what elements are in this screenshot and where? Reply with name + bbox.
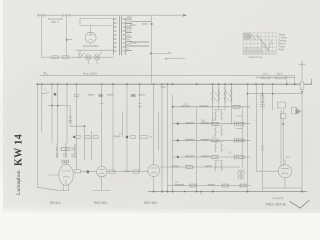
coil pair IF3 bbox=[214, 126, 223, 137]
wire: rectifier bottom bbox=[76, 43, 114, 55]
terminal marks mid bbox=[63, 13, 70, 17]
wire y105.6 bbox=[48, 105, 70, 107]
label above V5 bbox=[272, 196, 283, 200]
wire: vertical x91.6 partial bbox=[91, 131, 93, 160]
switch on rail A bbox=[44, 72, 48, 76]
wire: vertical x127 bbox=[126, 84, 128, 172]
svg-text:0,1: 0,1 bbox=[286, 155, 290, 159]
bottom rail dots bbox=[153, 191, 303, 193]
svg-text:4V: 4V bbox=[127, 38, 130, 42]
svg-text:RES 964 dk: RES 964 dk bbox=[266, 203, 286, 207]
wire: vertical x172.6 bbox=[172, 95, 174, 192]
wire: left L-drop bbox=[37, 83, 58, 190]
svg-text:4V 2A: 4V 2A bbox=[130, 41, 137, 45]
wire: vertical drop x151 bbox=[151, 15, 153, 84]
wire: vertical drop x41 bbox=[40, 15, 42, 57]
mid components row y94-97 bbox=[75, 94, 145, 97]
cluster of resistors/caps bottom-left bbox=[56, 143, 75, 163]
svg-text:KW 14: KW 14 bbox=[14, 134, 25, 166]
wire: vertical x225 bbox=[224, 84, 226, 110]
resistor R31 bbox=[107, 170, 148, 173]
wire y126 bbox=[70, 125, 85, 127]
wire: vertical x41.8 bbox=[41, 84, 43, 132]
svg-text:Ausgang: Ausgang bbox=[272, 196, 283, 200]
tube V5 bbox=[278, 160, 291, 178]
transformer tap labels bbox=[127, 15, 148, 51]
antenna terminal top right bbox=[299, 61, 306, 66]
svg-text:2x0,1: 2x0,1 bbox=[263, 72, 270, 76]
wire: vertical x153.7 bbox=[138, 84, 154, 165]
wire: vertical x272.7 bbox=[272, 84, 274, 110]
wire: bottom rail bbox=[148, 191, 307, 193]
coil pair IF5 bbox=[214, 161, 223, 172]
svg-text:RE 604: RE 604 bbox=[50, 201, 61, 205]
svg-text:Netz 220V: Netz 220V bbox=[83, 72, 97, 76]
label 0,1 right bbox=[286, 155, 290, 159]
wire: main bus B bbox=[37, 79, 311, 84]
wire: vertical x52 bbox=[51, 84, 53, 143]
wire: vertical x281 bbox=[280, 110, 282, 166]
wire: vertical drop x66 bbox=[66, 15, 72, 57]
resistor R30 bbox=[74, 170, 80, 173]
svg-text:500: 500 bbox=[201, 120, 206, 123]
wire: mains row bbox=[41, 56, 113, 58]
svg-text:REN 904: REN 904 bbox=[144, 201, 157, 205]
coil pair IF4 bbox=[214, 142, 223, 153]
label tube V5 bbox=[266, 203, 286, 207]
wire: vertical x302 bbox=[301, 66, 303, 192]
wire: vertical x122.3 partial bbox=[121, 112, 123, 137]
resistor R2 bbox=[63, 56, 69, 59]
wire: vertical x196.6 bbox=[196, 107, 198, 192]
label Netzschalter bbox=[83, 72, 97, 76]
capacitor C20 bbox=[260, 103, 265, 111]
wire: vertical x84.5 partial bbox=[84, 126, 86, 160]
component row y137 bbox=[73, 136, 152, 139]
label top-left component bbox=[48, 17, 64, 24]
svg-text:650V: 650V bbox=[142, 22, 148, 26]
svg-text:5000: 5000 bbox=[161, 86, 167, 89]
tube V3 bbox=[97, 167, 107, 177]
coil pair IF1b bbox=[224, 87, 232, 103]
wire: vertical x294.6 bbox=[294, 76, 296, 85]
row y169 right of V4 bbox=[160, 166, 240, 169]
wire: vertical x231.3 bbox=[230, 84, 232, 124]
grid table top right bbox=[243, 33, 277, 55]
coil pair IF2 bbox=[214, 110, 223, 121]
wire: top right row y77 bbox=[256, 76, 295, 78]
ladder ticks x70 bbox=[69, 117, 72, 123]
coil row 4 y157 bbox=[173, 155, 250, 160]
transformer T1 bbox=[113, 17, 151, 56]
wire: vertical x101.7 bbox=[100, 84, 141, 167]
svg-text:110: 110 bbox=[127, 29, 132, 33]
coil row 2 y124 bbox=[173, 122, 250, 127]
speaker arrow bbox=[290, 200, 310, 208]
title KW 14 bbox=[14, 134, 25, 195]
svg-text:Seilfuehrung: Seilfuehrung bbox=[249, 56, 264, 59]
coil row 1 y107 bbox=[172, 105, 250, 108]
wire y53.4 right of transformer bbox=[150, 52, 171, 54]
svg-text:Gleichrichter: Gleichrichter bbox=[83, 44, 99, 48]
resistor R20 on x302 bbox=[300, 82, 303, 89]
wire: vertical x212 bbox=[212, 84, 214, 124]
svg-text:Lumophon: Lumophon bbox=[16, 170, 22, 195]
stub wire mid top bbox=[165, 58, 185, 60]
svg-text:2x0,1: 2x0,1 bbox=[277, 72, 284, 76]
wire: vertical x242 bbox=[237, 107, 243, 168]
tube V4 bbox=[148, 165, 160, 177]
wire: tube V4 bottom bbox=[153, 177, 155, 192]
terminal marks left bbox=[39, 13, 45, 17]
wire: rail A bbox=[40, 75, 295, 77]
label tube V3 bbox=[94, 201, 107, 205]
lamp L1 bbox=[86, 55, 91, 64]
table side text bbox=[279, 34, 288, 52]
label below table bbox=[249, 56, 264, 59]
lamp L2 bbox=[94, 55, 99, 64]
label rectifier bbox=[83, 44, 99, 48]
resistor R21 bbox=[262, 76, 270, 79]
component blob x297 bbox=[283, 109, 302, 113]
wire: vertical x262.4 bbox=[261, 84, 264, 191]
wire: tube V5 connections bbox=[257, 84, 303, 188]
coil row 3 y140 bbox=[173, 138, 250, 143]
resistor R1 bbox=[52, 56, 58, 59]
coupling cap blob bbox=[80, 170, 96, 173]
wire: vertical x247.5 bbox=[247, 84, 249, 191]
wire: vertical x167.5 bbox=[167, 84, 169, 191]
wire: row y93.7 bbox=[247, 93, 302, 95]
transformer T1 primary loop wires bbox=[80, 18, 113, 32]
resistor R22 bbox=[275, 76, 285, 79]
wire: vertical x67 bbox=[66, 84, 68, 143]
label tube V2 bbox=[50, 201, 61, 205]
svg-text:220: 220 bbox=[127, 15, 132, 19]
micro labels sprinkle bbox=[45, 86, 258, 184]
component box right mid 2 bbox=[292, 107, 297, 114]
wire: vertical x286.8 bbox=[286, 76, 288, 85]
coil pair IF1a bbox=[212, 87, 220, 103]
svg-text:2000: 2000 bbox=[130, 23, 136, 27]
svg-text:4V: 4V bbox=[127, 33, 130, 37]
component box x283 bbox=[281, 113, 286, 166]
svg-text:220 V: 220 V bbox=[51, 20, 59, 24]
label tube V4 bbox=[144, 201, 157, 205]
svg-text:Rolle: Rolle bbox=[279, 49, 285, 52]
bus junction dots bbox=[41, 83, 303, 85]
wire: oval tube bottom bbox=[49, 175, 69, 191]
mains switch S1 bbox=[79, 53, 84, 58]
ground tick on rail bbox=[200, 191, 202, 195]
svg-text:REN 904: REN 904 bbox=[94, 201, 107, 205]
wire: top antenna line bbox=[37, 14, 187, 17]
wire: vertical x76.4 bbox=[75, 84, 77, 169]
junction dot x302 y92 bbox=[301, 91, 303, 93]
output tube V2 (oval) bbox=[59, 162, 73, 186]
switch lever left bbox=[41, 93, 56, 96]
wire: tube V3 bottom bbox=[93, 177, 110, 191]
resistor R23 vertical bbox=[261, 96, 264, 103]
wire: vertical x70.2 partial bbox=[69, 106, 71, 127]
labels above R21 R22 bbox=[263, 72, 284, 76]
wire: vertical x162 bbox=[161, 84, 163, 191]
component box right mid bbox=[278, 102, 286, 108]
wire: vertical x139.7 bbox=[139, 84, 141, 172]
row y185.5 bbox=[168, 184, 251, 187]
wire: vertical x158.5 partial bbox=[158, 112, 160, 150]
svg-text:150: 150 bbox=[127, 20, 132, 24]
wire: vertical x57.7 bbox=[57, 84, 59, 144]
wire: vertical x220.4 bbox=[218, 84, 220, 110]
output transformer bottom mid bbox=[238, 170, 245, 180]
wire: vertical x113 bbox=[112, 84, 114, 172]
rectifier tube V1 bbox=[85, 32, 96, 43]
